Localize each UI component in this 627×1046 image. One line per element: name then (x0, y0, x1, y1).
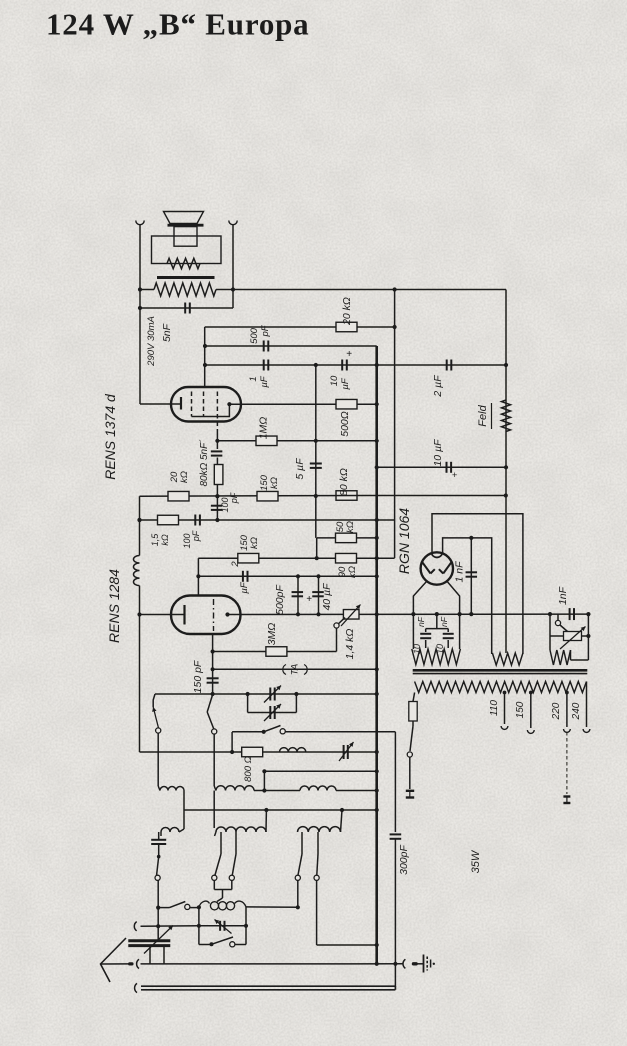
capacitor 10nF right (443, 629, 454, 648)
wire 10uF2 row (377, 466, 506, 468)
svg-text:1: 1 (248, 376, 259, 381)
node x315 y497 (314, 494, 318, 498)
resistor 150kohm upper (257, 491, 278, 501)
wire bias right (587, 614, 589, 660)
label 300pF (398, 845, 410, 875)
label 110 (489, 700, 500, 716)
svg-text:pF: pF (229, 492, 239, 504)
label 220 (551, 702, 562, 720)
wire primary left end (413, 693, 415, 702)
grid dashdot V2 (213, 599, 215, 631)
node varres right (586, 634, 590, 638)
node y732 x263 (262, 730, 266, 734)
node 100pF row end (375, 518, 379, 522)
svg-text:1,4 kΩ: 1,4 kΩ (344, 629, 356, 660)
label 1.4kohm (344, 629, 356, 660)
svg-text:300pF: 300pF (398, 845, 410, 875)
resistor 1Mohm (256, 436, 277, 446)
transformer core bar (157, 276, 215, 279)
wire y732 row b (285, 731, 395, 733)
svg-text:80kΩ 5nF´: 80kΩ 5nF´ (198, 439, 210, 487)
output transformer box (152, 236, 222, 264)
ground symbol (424, 955, 435, 973)
svg-text:1 nF: 1 nF (454, 561, 466, 583)
wire y907 row (188, 906, 298, 909)
label 500pF lower (274, 585, 286, 615)
node tap 150 (529, 691, 533, 695)
node y771 x264 (262, 769, 266, 773)
wire tap 110 (504, 693, 506, 725)
node y771 x376 (375, 769, 379, 773)
node y810 x376 (375, 808, 379, 812)
switch S6 (229, 832, 236, 880)
wire left rail upper (139, 308, 141, 404)
switch S10 (199, 937, 233, 946)
wire grid chain V1 (216, 433, 218, 520)
wire y771 row (264, 770, 376, 772)
wire 500pF2 drop (297, 576, 299, 614)
switch S7 (295, 832, 302, 880)
wire grid lead V2 (212, 634, 214, 694)
wire x214 mid link (213, 791, 215, 829)
pickup TA symbol (283, 664, 307, 675)
wire V2 top lead (197, 558, 199, 595)
svg-text:nF: nF (439, 616, 449, 627)
node y694 x376 (375, 692, 379, 696)
capacitor 40uF (312, 592, 324, 596)
node rail x471 (469, 612, 473, 616)
wire cathode lead V1 (140, 403, 181, 405)
label 240 (571, 702, 582, 720)
node bus x395 (393, 962, 397, 966)
node bias left rail (548, 612, 552, 616)
winding heater 1 (412, 649, 461, 665)
wire S5-S6 join (214, 889, 232, 891)
label 5nF (161, 323, 173, 342)
wire 90k row (198, 557, 394, 559)
capacitor 300pF (390, 834, 402, 838)
label 2uF V2 (230, 561, 250, 594)
wire y694 row (155, 693, 377, 695)
label 80kohm right (338, 468, 350, 496)
wire bias left (549, 614, 551, 650)
wire tap 150 (530, 693, 532, 729)
wire gang stub right (163, 946, 165, 964)
svg-text:kΩ: kΩ (160, 534, 170, 546)
svg-text:5 µF: 5 µF (294, 458, 306, 480)
switch S8 (314, 832, 319, 880)
svg-text:RENS 1284: RENS 1284 (106, 569, 122, 643)
trimmer capacitor upper (264, 686, 281, 703)
node 5nF-left (138, 306, 142, 310)
label 150kohm lower (239, 534, 260, 551)
variable resistor mains (560, 627, 586, 650)
grid dashes V1 g3 (216, 392, 218, 434)
switch S12 mains (407, 721, 413, 757)
winding heater 2 (492, 653, 523, 665)
svg-text:kΩ: kΩ (269, 477, 280, 489)
node y694 x296 (294, 692, 298, 696)
node rail x376 y614 (375, 612, 379, 616)
node loop2 1nF tee (469, 536, 473, 540)
label 2uF (432, 375, 444, 398)
node y694 x247 (246, 692, 250, 696)
svg-text:500pF: 500pF (274, 585, 286, 615)
label 10uF top (329, 375, 351, 390)
label 10uF right plus (452, 470, 457, 480)
voice-coil resistor (167, 258, 200, 268)
cathode bar V2 (183, 605, 185, 625)
wire gang stub left (149, 946, 151, 964)
label 10nF left (412, 616, 426, 654)
tuning capacitor arrow (144, 926, 173, 954)
wire varres left (550, 635, 564, 637)
svg-text:80 kΩ: 80 kΩ (338, 468, 350, 496)
wire ground bus (141, 963, 404, 965)
coil L-ant 800 row (280, 748, 306, 752)
capacitor 100pF row (195, 515, 200, 526)
wire 100pF row (140, 519, 377, 521)
wire 5nF row (140, 307, 233, 309)
wire L4 left down (158, 832, 160, 839)
capacitor 500pF top (264, 341, 269, 352)
resistor 90kohm (336, 553, 357, 563)
label 290V 30mA (146, 316, 157, 367)
label Feld (477, 403, 492, 429)
grid dashes V1 g1 (191, 392, 193, 417)
svg-text:TA: TA (290, 664, 301, 675)
mains plug pin A (406, 791, 414, 798)
wire left rail lower a (139, 496, 141, 555)
field winding zigzag (154, 283, 216, 296)
loudspeaker top bar (168, 224, 204, 227)
terminal tap 150 (527, 730, 534, 733)
svg-text:500Ω: 500Ω (339, 411, 351, 437)
node y926 x158 (156, 924, 160, 928)
node TA end (375, 667, 379, 671)
svg-text:µF: µF (239, 581, 250, 593)
anode node V2 (225, 612, 229, 616)
capacitor 10uF right (447, 462, 452, 473)
node y752 x232 (230, 750, 234, 754)
node 1uF row x315 (314, 363, 318, 367)
node y926 x246 (244, 924, 248, 928)
label 10nF right (435, 616, 449, 654)
coil AF choke left (133, 556, 139, 586)
svg-text:1nF: 1nF (557, 586, 569, 605)
antenna symbol (101, 938, 127, 982)
wire x395 drop (394, 732, 396, 832)
resistor 80kohm right (336, 491, 357, 501)
terminal socket y926 (134, 922, 136, 931)
svg-text:µF: µF (259, 375, 270, 387)
label 20kohm left (169, 471, 190, 483)
coil L4 row830 (161, 828, 179, 837)
wire x395 drop b (394, 839, 396, 987)
node 100pF row left (137, 518, 141, 522)
node y810 x266 (264, 808, 268, 812)
label 10uF plus (346, 349, 352, 360)
label RENS 1374 d (102, 393, 118, 480)
node rail298 (296, 612, 300, 616)
label 90kohm (337, 566, 358, 578)
label 20kohm right (341, 297, 353, 326)
label 1Mohm (258, 417, 270, 440)
capacitor 5nF series (211, 451, 223, 455)
node left rail y520 (137, 518, 141, 522)
node y790 x264 (262, 788, 266, 792)
label 500ohm (339, 411, 351, 437)
cathode bar V1 (180, 397, 182, 410)
wire 500pF row (205, 345, 377, 347)
wire rail x394 foot (377, 519, 395, 521)
switch S4 arm (155, 857, 160, 881)
node y926 x198 (197, 924, 201, 928)
resistor 80kohm series (214, 465, 223, 485)
node rail x436 (435, 612, 439, 616)
label 500pF top (249, 324, 271, 344)
svg-text:+: + (306, 594, 312, 605)
wire S1 drop (157, 733, 159, 786)
node bypass x298 (296, 574, 300, 578)
capacitor 10uF top (342, 360, 347, 371)
label 100pF row (182, 530, 201, 548)
winding primary (415, 682, 587, 693)
node 90k row x376 (375, 556, 379, 560)
svg-text:150 pF: 150 pF (192, 660, 204, 693)
wire y945 row (317, 944, 377, 946)
trimmer capacitor row752 (339, 742, 354, 761)
switch S3 arm (264, 726, 286, 734)
svg-text:10: 10 (329, 375, 340, 386)
capacitor 10nF left (420, 634, 431, 638)
node 1M row end (375, 439, 379, 443)
winding bias (550, 650, 571, 665)
label 800ohm (243, 756, 254, 782)
wire x183 link (183, 791, 185, 830)
bottom double line (141, 986, 395, 990)
coil L3 row790 (300, 786, 336, 791)
trimmer capacitor lower (264, 704, 281, 721)
label 1.5kohm (150, 533, 170, 547)
antenna pin (128, 962, 134, 965)
capacitor 150pF (207, 678, 219, 682)
node rail318 (316, 612, 320, 616)
capacitor 1uF (264, 360, 269, 371)
node bypass x318 (316, 574, 320, 578)
wire chainL c (157, 908, 159, 927)
node bus x376 (375, 962, 379, 966)
node TA tee (211, 667, 215, 671)
wire grid-cap lead V1 (204, 327, 206, 387)
resistor 3Mohm (266, 647, 287, 657)
svg-text:3MΩ: 3MΩ (266, 623, 278, 646)
node y945 x376 (375, 943, 379, 947)
resistor 20kohm left (168, 491, 189, 501)
coil L6 row830 (298, 827, 341, 832)
switch S9 (158, 902, 190, 910)
wire 1M row (217, 440, 376, 442)
node zigzag-left (138, 287, 142, 291)
label 150 (515, 701, 526, 718)
wire y790 mid (254, 790, 300, 792)
label 5uF (294, 458, 306, 480)
svg-text:2 µF: 2 µF (432, 375, 444, 398)
label RGN 1064 (396, 508, 412, 574)
svg-text:RENS 1374 d: RENS 1374 d (102, 393, 118, 480)
wire 150k row left (198, 557, 237, 559)
node 1uF row start (203, 363, 207, 367)
svg-text:290V 30mA: 290V 30mA (146, 316, 157, 367)
svg-text:110: 110 (489, 700, 500, 716)
wire x232 link (231, 732, 233, 752)
terminal tap 110 (501, 726, 508, 729)
node y752 x376 (375, 750, 379, 754)
capacitor 1nF rgn (466, 572, 478, 576)
capacitor 100pF chain (211, 506, 223, 510)
wire mid rail x315 (315, 365, 317, 538)
svg-text:µF: µF (340, 377, 351, 389)
svg-text:240: 240 (571, 702, 582, 720)
terminal socket ground (403, 959, 405, 968)
svg-text:pF: pF (260, 324, 271, 337)
node tap 220 (565, 691, 569, 695)
speaker terminal left (136, 221, 144, 225)
node 3M tee (211, 649, 215, 653)
wire L6 right up (341, 810, 343, 832)
coil L2 row790 (214, 786, 254, 791)
svg-text:1,5: 1,5 (150, 533, 160, 547)
wire grid2 bypass row (198, 575, 376, 577)
node 80k row end (504, 493, 508, 497)
wire 80k row right (377, 495, 506, 497)
resistor 150kohm lower (238, 553, 259, 563)
wire mains lead (409, 757, 411, 789)
svg-text:RGN 1064: RGN 1064 (396, 508, 412, 574)
mains plug pin B (563, 797, 570, 804)
coil L1 row790 (158, 786, 184, 791)
capacitor 5nF (185, 303, 190, 314)
wire osc tap (217, 890, 223, 902)
label 40uF plus (306, 594, 312, 605)
tube RGN1064 envelope (421, 552, 453, 584)
wire 20k row (205, 326, 395, 328)
wire filament leg left (413, 582, 426, 650)
svg-text:500: 500 (249, 327, 260, 344)
wire tap 220 (566, 693, 568, 728)
wire cathode lead V2 (140, 614, 185, 616)
wire L4 right up (179, 829, 184, 832)
node Feld bottom (504, 465, 508, 469)
svg-text:1MΩ: 1MΩ (258, 417, 270, 440)
wire y810 row (184, 809, 377, 811)
wire anode row V1 (229, 403, 376, 405)
label 10uF right (432, 439, 444, 467)
wire pot stub (336, 628, 338, 652)
wire S1 elbow (153, 694, 155, 707)
svg-text:800 Ω: 800 Ω (243, 756, 254, 782)
capacitor 1nF mains (570, 608, 574, 620)
capacitor 5uF (310, 464, 322, 468)
wire ground link (418, 963, 424, 965)
node y810 x342 (340, 808, 344, 812)
svg-text:124 W „B“ Europa: 124 W „B“ Europa (46, 7, 309, 42)
wire chainL d (157, 926, 159, 940)
wire 50k row (317, 537, 377, 539)
node 80k-row x216 (215, 494, 219, 498)
coil L7 osc (199, 901, 246, 910)
wire 10nF stub left (425, 629, 427, 632)
loudspeaker cone (164, 212, 204, 224)
tube RENS1374d envelope (171, 387, 241, 422)
node 1uF row end (504, 363, 508, 367)
svg-text:20 kΩ: 20 kΩ (341, 297, 353, 326)
anode internal V1 (192, 404, 230, 416)
svg-text:150: 150 (515, 701, 526, 718)
wire x316 link (316, 538, 318, 558)
label 150kohm upper (259, 474, 280, 491)
node y907 x158 (156, 906, 160, 910)
node bias right rail (586, 612, 590, 616)
resistor 50kohm (336, 533, 357, 543)
wire 80k row left (140, 495, 377, 498)
switch S2 arm (207, 694, 217, 734)
terminal socket antenna (137, 959, 139, 968)
label 100pF chain (220, 492, 239, 512)
node 20k row end (393, 325, 397, 329)
loudspeaker magnet (174, 227, 197, 247)
terminal socket bottom (135, 983, 137, 992)
label 35W (470, 849, 482, 873)
node chainL pivot (157, 855, 161, 859)
wire 1nF drop (470, 538, 472, 614)
wire HT- rail x376 (375, 346, 378, 964)
svg-text:kΩ: kΩ (179, 471, 190, 483)
anode node V1 (227, 402, 231, 406)
node 10uF2 row start (375, 465, 379, 469)
node tap 110 (503, 691, 507, 695)
wire 10nF tail left (425, 640, 427, 648)
wire S6 drop (231, 880, 233, 889)
svg-text:10 µF: 10 µF (432, 439, 444, 467)
switch S5 (212, 832, 221, 880)
node y790 x376 (375, 788, 379, 792)
ground pin (412, 962, 418, 965)
wire varres right (582, 635, 589, 637)
svg-text:220: 220 (551, 702, 562, 720)
resistor Feld zigzag (502, 400, 511, 432)
capacitor 2uF V2 (243, 571, 248, 582)
label 1nF rgn (454, 561, 466, 583)
trimmer loop right (295, 694, 297, 713)
wire x264 link (263, 771, 265, 790)
node zigzag-right (231, 287, 235, 291)
plate loop 1 (432, 514, 523, 654)
tube RENS1284 envelope (171, 596, 241, 635)
wire 3M row (213, 651, 337, 653)
node x316 bottom (315, 556, 319, 560)
switch S11 (555, 614, 567, 631)
resistor 800ohm (242, 747, 263, 757)
node leg left rail (411, 612, 415, 616)
capacitor 2uF (447, 360, 452, 371)
wire anode rail y614 (228, 613, 591, 615)
label RENS 1284 (106, 569, 122, 643)
svg-text:+: + (346, 349, 352, 360)
grid dashes V1 g2 (203, 392, 205, 417)
terminal tap 220 (564, 729, 571, 732)
node chain y520 (215, 518, 219, 522)
